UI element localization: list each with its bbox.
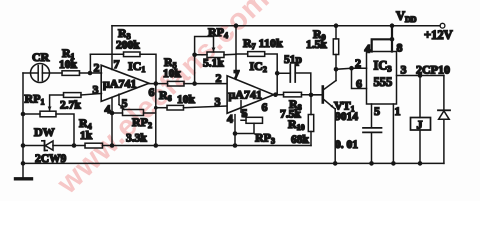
wire: IC2 pin7 riser to VDD rail [235, 26, 237, 80]
svg-text:J: J [417, 118, 423, 132]
node ground rail corner [21, 161, 26, 166]
svg-text:RP3: RP3 [255, 131, 275, 146]
capacitor C 0.01 [335, 128, 382, 163]
potentiometer RP1 [23, 92, 74, 146]
op-amp U1 uA741 triangle [93, 57, 155, 116]
svg-text:6: 6 [356, 77, 362, 91]
svg-text:7: 7 [114, 57, 120, 71]
node RP2 left lead [110, 111, 115, 116]
wire: 555 pin3 output [397, 75, 444, 77]
node zener-rail [21, 143, 26, 148]
node RP4 left lead [192, 53, 197, 58]
node pin3/relay [418, 73, 423, 78]
wire: negative rail to R10 [156, 145, 311, 147]
svg-text:IC2: IC2 [250, 59, 267, 74]
svg-text:RP1: RP1 [25, 92, 45, 107]
node 555 VDD riser [390, 23, 395, 28]
zener diode DW 2CW9 [23, 125, 85, 165]
svg-text:1.5k: 1.5k [306, 39, 327, 51]
resistor R7 110k [236, 36, 283, 95]
svg-text:555: 555 [374, 75, 393, 89]
op-amp U2 uA741 triangle [215, 59, 274, 126]
svg-text:2.7k: 2.7k [60, 100, 81, 112]
svg-text:51p: 51p [284, 54, 302, 66]
svg-text:+12V: +12V [424, 28, 453, 42]
svg-text:9014: 9014 [335, 111, 358, 123]
svg-text:3.3k: 3.3k [126, 133, 147, 145]
terminal +12V circle [440, 23, 445, 28]
node R4 left [72, 143, 77, 148]
resistor R6 10k [156, 88, 227, 110]
svg-text:200k: 200k [116, 40, 140, 52]
node pin2 IC1 [88, 71, 93, 76]
diode VD 2CP10 [438, 76, 450, 164]
node RP3 jog [233, 131, 238, 136]
capacitor 51p [277, 54, 311, 95]
relay J [411, 76, 431, 164]
node column/negative wire [154, 143, 159, 148]
node cap-rail [369, 161, 374, 166]
svg-text:8: 8 [397, 41, 403, 55]
node R5 right / IC2 pin2 node [192, 81, 197, 86]
svg-text:0. 01: 0. 01 [335, 139, 358, 151]
potentiometer RP4 5.1k [195, 25, 236, 84]
svg-text:3: 3 [93, 83, 99, 97]
wire: 555 pin1 riser [392, 104, 394, 163]
svg-text:3: 3 [215, 95, 221, 109]
svg-text:68k: 68k [291, 134, 310, 146]
wire: bottom ground rail [23, 162, 444, 164]
svg-text:IC1: IC1 [128, 59, 145, 74]
svg-text:3: 3 [401, 63, 407, 77]
svg-text:R10: R10 [288, 117, 305, 132]
wire: collector node to 555 pin2/pin6 loop [336, 68, 367, 69]
svg-text:2: 2 [216, 71, 222, 85]
watermark www.elecfans.com [50, 0, 276, 201]
svg-text:2: 2 [94, 61, 100, 75]
wire: pin6 column down to negative wire [155, 84, 157, 146]
wire: feedback riser to R3 [89, 54, 91, 73]
IC3 555 timer [355, 41, 407, 119]
node pin6 [154, 81, 159, 86]
svg-text:IC3: IC3 [374, 59, 392, 74]
svg-text:R4: R4 [79, 116, 92, 131]
transistor Q1 VT1 9014 [311, 69, 358, 163]
svg-text:2: 2 [355, 56, 361, 70]
svg-text:10k: 10k [177, 94, 196, 106]
node RP1-rail [21, 112, 26, 117]
svg-text:6: 6 [149, 85, 155, 99]
resistor R1 10k [59, 46, 102, 75]
node R8/R10/base [309, 93, 314, 98]
resistor R4 1k [79, 116, 156, 148]
node R9 on VDD rail [334, 23, 339, 28]
node cap left [275, 71, 280, 76]
wire: IC2 pin4 riser [234, 115, 236, 146]
svg-text:10k: 10k [59, 59, 78, 71]
svg-text:μA741: μA741 [103, 77, 136, 91]
wire: top VDD rail [112, 25, 440, 27]
sensor CR [23, 50, 62, 83]
node CR left corner / left rail wire [22, 73, 24, 163]
node pin4 wire [110, 143, 115, 148]
svg-text:1k: 1k [80, 130, 93, 142]
resistor R5 10k [163, 55, 227, 86]
resistor R9 1.5k [306, 26, 339, 70]
node relay-rail [418, 161, 423, 166]
svg-text:DW: DW [34, 125, 55, 139]
node R9/collector [334, 67, 339, 72]
resistor R2 2.7k [60, 93, 102, 112]
svg-text:5: 5 [374, 104, 380, 118]
node emitter-rail [333, 161, 338, 166]
node R6 tap [154, 106, 158, 110]
resistor R3 200k feedback [90, 26, 156, 84]
wire: 555 pin5 riser [371, 104, 373, 127]
svg-text:VDD: VDD [396, 9, 417, 24]
resistor R8 7.5k [274, 92, 322, 120]
node 555 pin2 [349, 66, 354, 71]
node strap corner [390, 37, 395, 42]
svg-text:4: 4 [227, 112, 233, 126]
wire: IC1 pin4 riser down [111, 97, 113, 145]
svg-text:10k: 10k [163, 68, 182, 80]
wire: IC1 pin7 riser to VDD rail [111, 26, 113, 70]
svg-text:5.1k: 5.1k [203, 58, 224, 70]
node RP4 riser on VDD rail [234, 23, 239, 28]
resistor R10 68k [288, 95, 314, 146]
svg-text:CR: CR [32, 50, 50, 64]
svg-text:4: 4 [105, 102, 111, 116]
svg-text:4: 4 [365, 42, 371, 56]
wire: 555 pins 4-8 strap and VDD riser [372, 26, 392, 52]
node IC2 pin4 on negative wire [233, 143, 238, 148]
svg-text:R7 110k: R7 110k [243, 36, 283, 51]
svg-text:μA741: μA741 [229, 88, 262, 102]
node pin1-rail [391, 161, 396, 166]
svg-text:6: 6 [262, 100, 268, 114]
node IC2 output apex [273, 92, 278, 97]
potentiometer RP2 3.3k [112, 94, 156, 144]
svg-text:1: 1 [395, 104, 401, 118]
ground [16, 177, 32, 180]
wire: ground stub [22, 163, 24, 177]
wire: IC1 output to R5 [149, 83, 168, 85]
potentiometer RP3 [235, 101, 275, 146]
